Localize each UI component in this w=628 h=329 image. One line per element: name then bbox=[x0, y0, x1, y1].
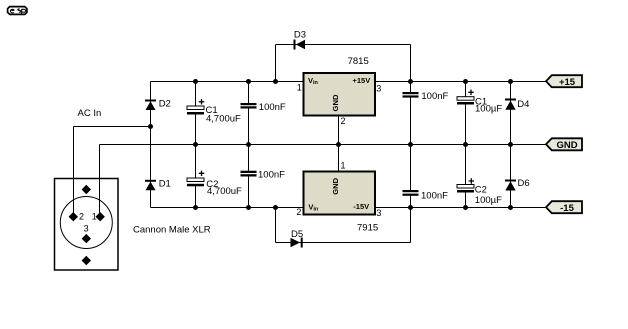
svg-text:D4: D4 bbox=[517, 99, 529, 110]
svg-text:AC In: AC In bbox=[78, 108, 102, 119]
svg-text:GND: GND bbox=[331, 177, 340, 194]
svg-text:3: 3 bbox=[84, 224, 89, 234]
svg-text:D2: D2 bbox=[159, 98, 171, 109]
svg-text:7815: 7815 bbox=[348, 56, 369, 67]
svg-text:GND: GND bbox=[331, 94, 340, 111]
svg-text:+15: +15 bbox=[559, 77, 576, 88]
svg-text:4,700uF: 4,700uF bbox=[207, 186, 242, 197]
svg-text:GND: GND bbox=[556, 140, 577, 151]
svg-text:C2: C2 bbox=[475, 185, 487, 196]
svg-text:100µF: 100µF bbox=[475, 103, 502, 114]
svg-text:2: 2 bbox=[296, 207, 301, 217]
svg-text:1: 1 bbox=[92, 212, 97, 222]
svg-text:100µF: 100µF bbox=[475, 195, 502, 206]
svg-text:100nF: 100nF bbox=[259, 102, 286, 113]
svg-text:D5: D5 bbox=[291, 229, 303, 240]
svg-text:7915: 7915 bbox=[357, 223, 378, 234]
svg-text:D3: D3 bbox=[294, 30, 306, 41]
svg-text:3: 3 bbox=[376, 208, 381, 218]
svg-text:100nF: 100nF bbox=[421, 191, 448, 202]
svg-text:2: 2 bbox=[341, 116, 346, 126]
svg-text:D1: D1 bbox=[159, 179, 171, 190]
svg-text:2: 2 bbox=[79, 212, 84, 222]
svg-text:D6: D6 bbox=[518, 178, 530, 189]
svg-text:4,700uF: 4,700uF bbox=[206, 113, 241, 124]
svg-text:1: 1 bbox=[297, 83, 302, 93]
svg-text:100nF: 100nF bbox=[421, 91, 448, 102]
svg-text:1: 1 bbox=[341, 161, 346, 171]
svg-text:-15V: -15V bbox=[353, 202, 369, 211]
svg-text:100nF: 100nF bbox=[258, 170, 285, 181]
svg-text:-15: -15 bbox=[560, 203, 574, 214]
svg-text:+15V: +15V bbox=[353, 76, 371, 85]
svg-text:Cannon Male XLR: Cannon Male XLR bbox=[133, 225, 211, 236]
svg-text:3: 3 bbox=[376, 84, 381, 94]
